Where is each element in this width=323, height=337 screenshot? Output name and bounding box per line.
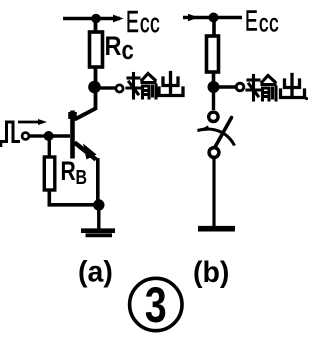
print speck after 出 (b) xyxy=(305,97,308,100)
transistor Q1: base bar xyxy=(70,111,75,159)
label 输出 output (a): char 出 xyxy=(159,73,183,96)
wire: input terminal to input junction xyxy=(29,134,45,137)
wire: output node down to collector (a) xyxy=(94,90,98,110)
label Rc xyxy=(105,32,134,66)
wire: output node down to switch (b) xyxy=(212,90,215,110)
ground symbol (a) xyxy=(81,231,115,236)
wire: output node to terminal (b) xyxy=(218,85,236,88)
label Ecc (b) xyxy=(245,6,279,38)
node: junction dot on rail (a) xyxy=(91,14,101,24)
arrow above input wire pointing right xyxy=(18,119,47,125)
svg-text:c: c xyxy=(122,36,134,65)
ground symbol (b) xyxy=(198,226,235,232)
svg-text:R: R xyxy=(105,32,122,62)
node: junction dot on rail (b) xyxy=(209,13,219,23)
svg-text:R: R xyxy=(60,157,75,187)
resistor RB (body) xyxy=(44,157,55,190)
svg-text:E: E xyxy=(126,6,139,40)
label 输出 output (b): char 出 xyxy=(281,75,305,98)
switch S: top contact circle xyxy=(209,112,218,121)
transistor Q1: emitter diagonal with arrow xyxy=(75,143,97,160)
label RB xyxy=(60,157,87,189)
label Ecc (a) xyxy=(126,6,160,40)
node: output junction dot (b) xyxy=(208,81,220,93)
input pulse waveform symbol xyxy=(0,122,20,147)
resistor (b) body (unlabeled) xyxy=(207,36,219,72)
wire: input junction down to RB xyxy=(48,136,51,157)
arrow on rail (b) pointing right xyxy=(188,14,199,21)
switch S: motion arc with arrowhead xyxy=(197,126,235,146)
wire: Rc bottom to output node (a) xyxy=(94,67,98,84)
caption (b) xyxy=(193,256,229,289)
wire: output node to output terminal (a) xyxy=(99,86,115,89)
wire: base wire from input node to base bar xyxy=(52,134,70,137)
switch S: bottom contact circle xyxy=(209,148,219,158)
resistor Rc (body) xyxy=(90,32,103,67)
label 输出 output (b): char 输 xyxy=(247,76,276,101)
arrow on rail (a) pointing right toward Ecc label xyxy=(113,15,124,23)
svg-text:3: 3 xyxy=(145,277,167,334)
svg-text:cc: cc xyxy=(140,8,160,38)
figure number: circled 3 xyxy=(130,277,182,334)
svg-text:(a): (a) xyxy=(78,256,113,289)
svg-text:(b): (b) xyxy=(193,256,229,289)
wire: resistor bottom to output node (b) xyxy=(212,72,216,84)
wire: junction down to ground (a) xyxy=(97,205,100,229)
wire: Ecc supply rail (a) xyxy=(63,17,120,21)
wire: rail dot down to Rc top xyxy=(94,19,98,33)
switch S: blade diagonal xyxy=(215,118,232,149)
wire: Ecc supply rail (b) xyxy=(183,16,242,19)
node: input junction dot xyxy=(44,131,54,141)
caption (a) xyxy=(78,256,113,289)
svg-text:E: E xyxy=(245,6,258,38)
node: output junction dot (a) xyxy=(88,81,101,94)
wire: switch down to ground (b) xyxy=(212,158,215,228)
terminal: open circle output (b) xyxy=(236,83,244,91)
node: emitter junction dot (a) xyxy=(93,199,104,210)
svg-text:B: B xyxy=(76,166,88,188)
terminal: open circle input xyxy=(22,133,29,140)
wire: rail dot down to resistor (b) xyxy=(212,18,216,37)
wire: emitter down to junction (a) xyxy=(96,158,100,202)
terminal: open circle output (a) xyxy=(116,85,123,92)
label 输出 output (a): char 输 xyxy=(127,74,156,99)
svg-text:cc: cc xyxy=(259,9,279,37)
transistor Q1: collector diagonal xyxy=(75,109,96,120)
wire: RB bottom to emitter junction xyxy=(49,190,95,205)
